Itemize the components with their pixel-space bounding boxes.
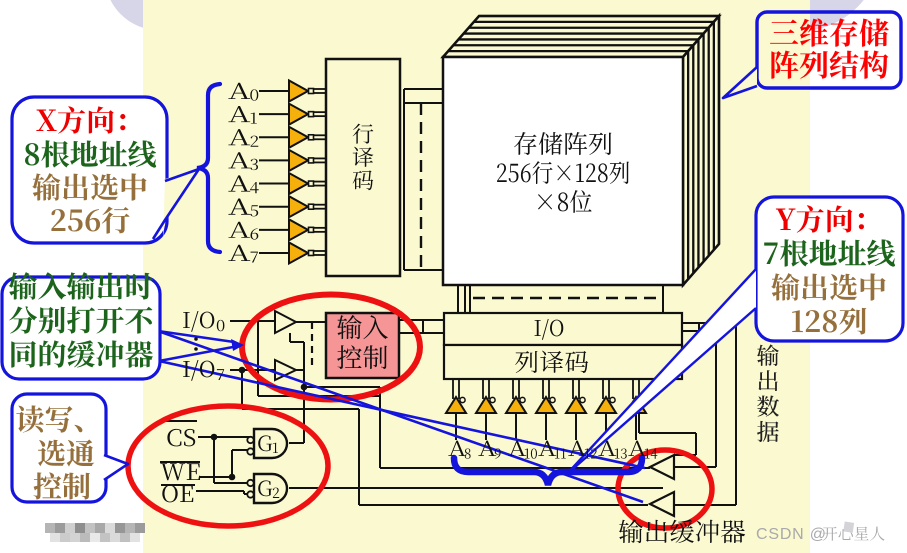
svg-text:CSDN @: CSDN @ [756, 526, 827, 543]
